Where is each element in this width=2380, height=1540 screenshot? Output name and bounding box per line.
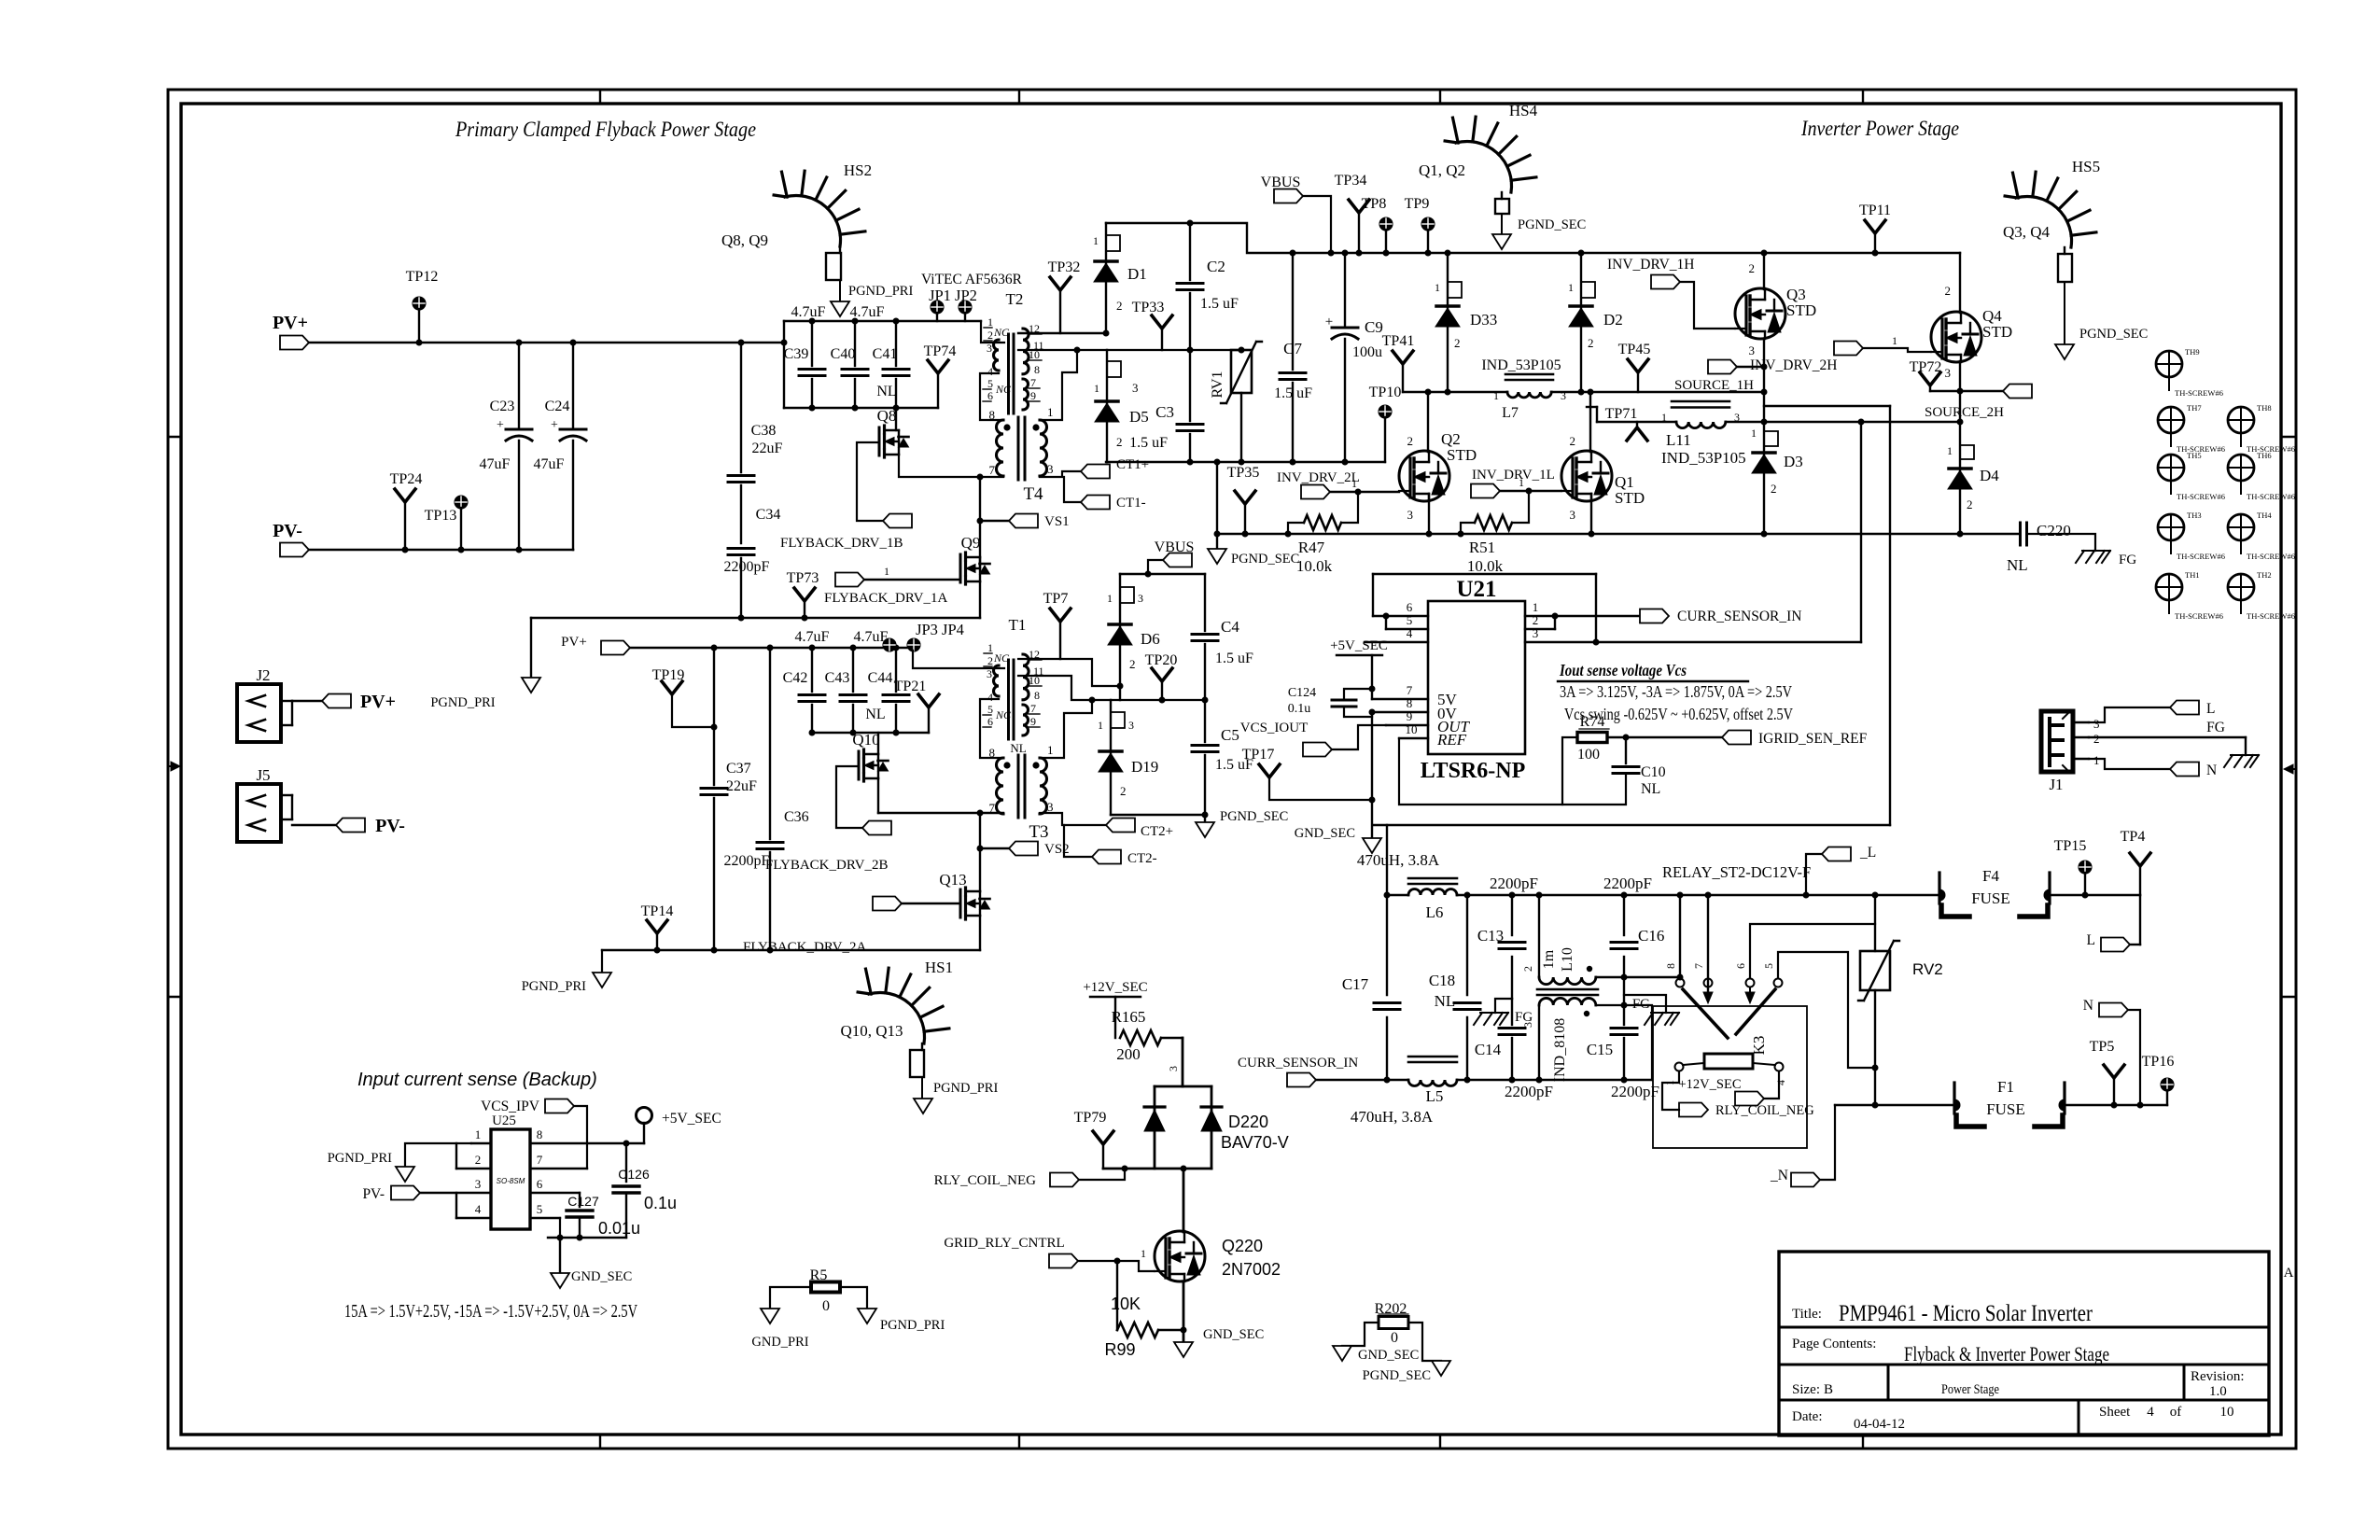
svg-text:Vcs swing -0.625V ~ +0.625V, o: Vcs swing -0.625V ~ +0.625V, offset 2.5V bbox=[1564, 705, 1793, 723]
svg-text:PGND_PRI: PGND_PRI bbox=[522, 979, 586, 994]
junction T4 pin1 rail bbox=[1074, 347, 1081, 354]
svg-text:A: A bbox=[2284, 1266, 2294, 1281]
svg-text:10.0k: 10.0k bbox=[1296, 557, 1333, 575]
junction TP35 bbox=[1242, 531, 1249, 538]
junction VS1 bbox=[977, 518, 984, 525]
svg-text:C13: C13 bbox=[1477, 927, 1504, 945]
svg-text:J5: J5 bbox=[256, 766, 270, 784]
screw TH3 bbox=[2158, 511, 2225, 561]
flag RLY_COIL_NEG relay bbox=[1679, 1103, 1708, 1117]
flag SOURCE_1H bbox=[1674, 360, 1764, 394]
junction C42 bbox=[809, 645, 816, 651]
svg-text:5: 5 bbox=[987, 703, 993, 716]
svg-text:VS2: VS2 bbox=[1044, 842, 1070, 857]
svg-text:C124: C124 bbox=[1288, 686, 1316, 700]
svg-text:CT1+: CT1+ bbox=[1116, 457, 1149, 472]
heatsink HS5 pad bbox=[2058, 254, 2072, 282]
svg-text:4: 4 bbox=[1774, 1080, 1787, 1085]
svg-text:PMP9461 - Micro Solar Inverter: PMP9461 - Micro Solar Inverter bbox=[1839, 1301, 2093, 1326]
wire PGND_PRI rail upper bbox=[531, 617, 980, 619]
screw TH9 bbox=[2156, 347, 2223, 398]
svg-text:REF: REF bbox=[1436, 731, 1467, 749]
svg-text:T4: T4 bbox=[1023, 484, 1043, 504]
junction C23 top bbox=[516, 340, 523, 346]
junction C17 bottom bbox=[1384, 1077, 1391, 1084]
svg-text:PV-: PV- bbox=[273, 521, 302, 541]
junction C44 bbox=[893, 645, 900, 651]
svg-text:3: 3 bbox=[2093, 717, 2100, 731]
svg-text:4: 4 bbox=[987, 691, 993, 704]
svg-text:4: 4 bbox=[2147, 1405, 2154, 1420]
wire Q8 gate to flag bbox=[857, 442, 883, 521]
diode D5 bbox=[1094, 350, 1149, 462]
svg-text:1: 1 bbox=[987, 641, 993, 654]
svg-text:2: 2 bbox=[1533, 613, 1539, 627]
wire T1 block top rail bbox=[1120, 573, 1205, 575]
wire VS2 node vertical bbox=[979, 813, 981, 891]
svg-text:PV-: PV- bbox=[375, 816, 405, 836]
inductor L5 bbox=[1351, 1057, 1457, 1126]
svg-text:FUSE: FUSE bbox=[1971, 889, 2010, 907]
ground PGND_PRI stem upper bbox=[530, 618, 532, 678]
border zone arrow left bbox=[168, 762, 180, 771]
svg-text:4.7uF: 4.7uF bbox=[791, 304, 826, 320]
flag PV- input bbox=[280, 543, 309, 557]
svg-text:+5V_SEC: +5V_SEC bbox=[662, 1111, 721, 1127]
svg-text:TH8: TH8 bbox=[2257, 403, 2272, 413]
testpoint TP41 bbox=[1382, 333, 1415, 392]
diode D3 bbox=[1751, 427, 1803, 496]
diode D33 bbox=[1435, 253, 1497, 392]
svg-text:3: 3 bbox=[1167, 1066, 1180, 1071]
wire source rail bbox=[1217, 533, 2018, 535]
ground PGND_PRI stem lower bbox=[601, 950, 603, 973]
ic U21 pins left bottom bbox=[1372, 683, 1428, 738]
svg-text:2: 2 bbox=[1521, 966, 1534, 972]
svg-text:1m: 1m bbox=[1541, 949, 1557, 969]
wire Q8 source to T4 pin7 bbox=[899, 455, 1003, 477]
testpoint TP16 bbox=[2142, 1054, 2175, 1105]
wire pin1 to flag bbox=[1555, 615, 1640, 617]
resistor R165 bbox=[1112, 1008, 1183, 1086]
ground FG right filter bbox=[1624, 995, 1679, 1025]
svg-text:PGND_SEC: PGND_SEC bbox=[1518, 217, 1586, 232]
flag CT2- bbox=[1092, 850, 1121, 864]
capacitor C23 bbox=[480, 343, 532, 550]
svg-text:C24: C24 bbox=[545, 399, 570, 414]
svg-text:3: 3 bbox=[1521, 1022, 1534, 1028]
svg-text:C18: C18 bbox=[1429, 972, 1455, 989]
wire L10 top left riser bbox=[1538, 895, 1540, 977]
wire C-block bottom rail bbox=[1106, 461, 1385, 463]
wire L10 bottom left riser bbox=[1538, 1005, 1540, 1080]
svg-text:22uF: 22uF bbox=[752, 441, 783, 456]
svg-text:RV2: RV2 bbox=[1912, 960, 1943, 978]
svg-text:NL: NL bbox=[1435, 992, 1456, 1010]
svg-text:7: 7 bbox=[1692, 963, 1705, 969]
svg-text:15A => 1.5V+2.5V, -15A => -1.5: 15A => 1.5V+2.5V, -15A => -1.5V+2.5V, 0A… bbox=[344, 1301, 637, 1322]
svg-text:Flyback & Inverter Power Stage: Flyback & Inverter Power Stage bbox=[1904, 1342, 2109, 1365]
svg-text:GND_SEC: GND_SEC bbox=[1295, 826, 1355, 841]
border zone arrow right bbox=[2284, 764, 2296, 774]
heatsink HS2 pad bbox=[826, 253, 841, 280]
junction RV1 bbox=[1239, 347, 1245, 354]
svg-text:U21: U21 bbox=[1456, 577, 1496, 602]
svg-text:C42: C42 bbox=[783, 670, 808, 686]
svg-text:3: 3 bbox=[1047, 800, 1054, 814]
junction C34 bottom bbox=[738, 615, 745, 622]
svg-text:1: 1 bbox=[884, 565, 889, 578]
svg-text:FG: FG bbox=[1632, 997, 1650, 1012]
svg-text:10: 10 bbox=[1406, 722, 1418, 736]
junction R74 out bbox=[1623, 735, 1630, 741]
title block column lines bbox=[1888, 1365, 2184, 1435]
svg-text:IGRID_SEN_REF: IGRID_SEN_REF bbox=[1758, 731, 1868, 747]
capacitor C220 bbox=[2007, 522, 2071, 574]
resistor R202 bbox=[1342, 1301, 1441, 1361]
svg-text:N: N bbox=[2206, 763, 2217, 778]
svg-text:R5: R5 bbox=[810, 1267, 828, 1283]
ground GND_SEC at Q220 bbox=[1174, 1342, 1193, 1357]
svg-text:F1: F1 bbox=[1997, 1078, 2014, 1096]
svg-text:RLY_COIL_NEG: RLY_COIL_NEG bbox=[934, 1173, 1036, 1188]
junction T4 pin7 bbox=[977, 474, 984, 481]
wire sensor loop top right vertical bbox=[1595, 574, 1597, 642]
junction C2 bbox=[1187, 220, 1194, 227]
svg-text:2: 2 bbox=[1120, 784, 1127, 798]
svg-text:TH6: TH6 bbox=[2257, 451, 2272, 460]
wire PV+ lower rail bbox=[630, 647, 913, 649]
flag INV_DRV_1L bbox=[1471, 468, 1561, 498]
ic U21 pins left top bbox=[1365, 600, 1428, 642]
svg-text:INV_DRV_1L: INV_DRV_1L bbox=[1472, 468, 1555, 483]
testpoint TP72 bbox=[1910, 359, 2003, 391]
capacitor C17 bbox=[1342, 975, 1400, 1010]
svg-text:C126: C126 bbox=[618, 1167, 650, 1182]
svg-text:U25: U25 bbox=[492, 1113, 516, 1128]
junction gnd rail bbox=[557, 1235, 564, 1241]
svg-text:TP11: TP11 bbox=[1859, 203, 1891, 218]
svg-text:1: 1 bbox=[1533, 600, 1539, 614]
svg-text:TP15: TP15 bbox=[2054, 838, 2087, 854]
flag INV_DRV_1H bbox=[1607, 257, 1735, 329]
wire VS1 node vertical bbox=[979, 477, 981, 567]
flag VCS_IPV bbox=[481, 1099, 587, 1169]
resistor R51 bbox=[1461, 491, 1529, 575]
svg-text:HS2: HS2 bbox=[844, 161, 872, 179]
flag _L bbox=[1806, 845, 1876, 895]
wire Q3 drain bbox=[1763, 253, 1765, 289]
svg-text:TH7: TH7 bbox=[2187, 403, 2202, 413]
testpoint TP4 bbox=[2121, 829, 2150, 895]
flag PV- at J5 bbox=[336, 819, 365, 833]
svg-text:3: 3 bbox=[1407, 508, 1414, 522]
svg-text:TP4: TP4 bbox=[2121, 829, 2146, 845]
junction C36 bbox=[767, 645, 774, 651]
testpoint TP73 bbox=[787, 570, 819, 618]
heatsink HS1 pad bbox=[910, 1050, 924, 1077]
wire REF rail bbox=[1399, 738, 1626, 805]
wire C220 to FG bbox=[2027, 534, 2095, 551]
svg-text:0: 0 bbox=[1391, 1330, 1398, 1346]
ground GND_SEC at R202 bbox=[1333, 1346, 1351, 1361]
svg-text:3: 3 bbox=[1945, 366, 1952, 380]
svg-text:PGND_PRI: PGND_PRI bbox=[933, 1081, 998, 1096]
capacitor C36 bbox=[724, 648, 809, 950]
svg-text:1: 1 bbox=[1351, 477, 1357, 490]
varistor RV1 bbox=[1210, 342, 1262, 462]
svg-text:TP10: TP10 bbox=[1369, 385, 1402, 400]
testpoint TP8 bbox=[1362, 196, 1393, 253]
junction Q3 phase bbox=[1761, 389, 1768, 396]
diode D2 bbox=[1568, 253, 1623, 392]
ic U21 pin names bbox=[1436, 691, 1471, 749]
svg-text:8: 8 bbox=[989, 408, 996, 422]
svg-text:C23: C23 bbox=[490, 399, 515, 414]
screw TH4 bbox=[2228, 511, 2295, 561]
mosfet Q13 bbox=[939, 871, 989, 919]
svg-text:PGND_PRI: PGND_PRI bbox=[880, 1318, 945, 1333]
wire Q13 source down bbox=[979, 916, 981, 950]
svg-text:TP8: TP8 bbox=[1362, 196, 1387, 212]
svg-text:1: 1 bbox=[1519, 476, 1524, 489]
junction bank left PV+ bbox=[781, 340, 788, 346]
svg-text:C36: C36 bbox=[784, 809, 809, 825]
diode D1 bbox=[1093, 223, 1147, 333]
testpoint TP11 bbox=[1859, 203, 1891, 253]
ic U25 box bbox=[491, 1129, 530, 1229]
capacitor C13 bbox=[1477, 895, 1525, 999]
svg-text:CT2-: CT2- bbox=[1127, 851, 1157, 866]
connector J2 bbox=[237, 666, 322, 742]
wire Q10 source to T3 pin7 bbox=[877, 778, 879, 813]
svg-text:+5V_SEC: +5V_SEC bbox=[1330, 638, 1388, 653]
junction TP13 bbox=[458, 547, 465, 553]
wire L rail bbox=[1387, 894, 1408, 896]
svg-text:C38: C38 bbox=[751, 423, 777, 439]
svg-text:_L: _L bbox=[1859, 845, 1876, 861]
heatsink HS4 pad bbox=[1495, 199, 1509, 214]
svg-text:TP74: TP74 bbox=[924, 343, 957, 359]
svg-text:TP73: TP73 bbox=[787, 570, 819, 586]
flag CT2+ bbox=[1106, 819, 1135, 833]
svg-text:3: 3 bbox=[1749, 343, 1756, 357]
junction TP9 bbox=[1425, 250, 1432, 257]
flag PV+ input bbox=[280, 336, 309, 350]
svg-text:Q220: Q220 bbox=[1222, 1237, 1263, 1255]
wire T1 pin11 to D6 bbox=[1018, 659, 1120, 686]
svg-text:J2: J2 bbox=[256, 666, 270, 684]
junction D220 bottom bbox=[1122, 1166, 1128, 1172]
svg-text:D6: D6 bbox=[1141, 630, 1160, 648]
svg-text:0.1u: 0.1u bbox=[1288, 702, 1311, 716]
svg-text:C4: C4 bbox=[1221, 618, 1239, 636]
testpoint TP21 bbox=[894, 679, 939, 733]
svg-text:2: 2 bbox=[1967, 497, 1973, 511]
svg-text:J1: J1 bbox=[2049, 776, 2063, 793]
wire VBUS top rail bbox=[1106, 223, 1960, 253]
svg-text:Size:: Size: bbox=[1792, 1382, 1820, 1397]
wire U25 gnd rail bbox=[548, 1237, 626, 1239]
svg-text:C16: C16 bbox=[1638, 927, 1664, 945]
ic U25 pins left bbox=[405, 1127, 491, 1218]
wire U25 pin5 down bbox=[559, 1218, 561, 1238]
svg-text:4: 4 bbox=[1407, 626, 1413, 640]
svg-text:5: 5 bbox=[1407, 613, 1413, 627]
svg-text:BAV70-V: BAV70-V bbox=[1221, 1133, 1289, 1152]
junction Q2 drain bbox=[1425, 389, 1432, 396]
junction TP8 bbox=[1383, 250, 1390, 257]
wire JP4 to T1 pin3 bbox=[913, 651, 1004, 668]
svg-text:Q1, Q2: Q1, Q2 bbox=[1419, 161, 1465, 179]
power +5V_SEC tap bbox=[1330, 638, 1388, 699]
junction D1 anode bbox=[1103, 330, 1110, 337]
testpoint TP20 bbox=[1145, 652, 1178, 700]
svg-text:6: 6 bbox=[987, 715, 993, 728]
svg-text:3: 3 bbox=[1570, 508, 1576, 522]
svg-text:Input current sense (Backup): Input current sense (Backup) bbox=[357, 1070, 597, 1090]
ground PGND_SEC at C5 bbox=[1204, 815, 1206, 822]
svg-text:+12V_SEC: +12V_SEC bbox=[1083, 980, 1147, 995]
ground FG at C220 bbox=[2082, 550, 2110, 552]
svg-text:1.5 uF: 1.5 uF bbox=[1200, 296, 1239, 312]
junction C16 bbox=[1621, 892, 1628, 899]
svg-text:10K: 10K bbox=[1111, 1295, 1141, 1313]
svg-text:FLYBACK_DRV_2B: FLYBACK_DRV_2B bbox=[765, 858, 888, 873]
svg-text:TP20: TP20 bbox=[1145, 652, 1178, 668]
svg-text:0: 0 bbox=[822, 1298, 830, 1314]
screw TH7 bbox=[2158, 403, 2225, 454]
wire D19 bottom rail bbox=[1111, 814, 1205, 816]
svg-text:C5: C5 bbox=[1221, 726, 1239, 744]
svg-text:5: 5 bbox=[987, 377, 993, 390]
flag FLYBACK_DRV_2A bbox=[873, 897, 902, 911]
connector J5 bbox=[237, 766, 336, 842]
svg-text:VS1: VS1 bbox=[1044, 514, 1070, 529]
svg-text:STD: STD bbox=[1447, 446, 1477, 464]
junction RV2 top bbox=[1872, 892, 1879, 899]
capacitor C124 bbox=[1288, 686, 1372, 717]
svg-text:C220: C220 bbox=[2037, 522, 2071, 539]
transformer T2 bbox=[983, 290, 1044, 413]
border inner frame bbox=[181, 104, 2281, 1435]
junction L10 top bbox=[1536, 892, 1543, 899]
svg-text:GRID_RLY_CNTRL: GRID_RLY_CNTRL bbox=[944, 1236, 1064, 1251]
svg-text:SOURCE_2H: SOURCE_2H bbox=[1925, 405, 2004, 420]
testpoint TP5 bbox=[2090, 1039, 2124, 1105]
svg-text:8: 8 bbox=[1664, 963, 1677, 969]
svg-text:PGND_SEC: PGND_SEC bbox=[1231, 552, 1299, 567]
svg-text:RV1: RV1 bbox=[1210, 371, 1225, 399]
wire T2 pin4 to T4 pin8 bbox=[980, 373, 1003, 420]
svg-text:4: 4 bbox=[987, 365, 993, 378]
svg-text:2: 2 bbox=[1129, 657, 1136, 671]
heatsink HS4 bbox=[1419, 102, 1538, 192]
mosfet Q220 bbox=[1155, 1231, 1281, 1281]
svg-text:TH-SCREW#6: TH-SCREW#6 bbox=[2247, 492, 2295, 501]
junction TP24 bbox=[402, 547, 409, 553]
svg-text:PGND_PRI: PGND_PRI bbox=[430, 695, 495, 710]
junction C18 bbox=[1464, 892, 1471, 899]
svg-text:K3: K3 bbox=[1750, 1036, 1768, 1056]
junction D33 top bbox=[1445, 250, 1451, 257]
svg-text:2200pF: 2200pF bbox=[724, 853, 770, 869]
svg-text:2: 2 bbox=[987, 654, 993, 667]
svg-text:6: 6 bbox=[1407, 600, 1413, 614]
svg-text:TP72: TP72 bbox=[1910, 359, 1942, 375]
relay K3 pin 8 bbox=[1664, 895, 1685, 987]
diode D220 pair bbox=[1103, 1086, 1289, 1169]
flag VS2 bbox=[1009, 842, 1038, 856]
flag FLYBACK_DRV_2B bbox=[862, 821, 891, 835]
svg-text:TH-SCREW#6: TH-SCREW#6 bbox=[2247, 552, 2295, 561]
diode D19 bbox=[1098, 700, 1158, 815]
svg-text:C17: C17 bbox=[1342, 975, 1369, 993]
junction 5V pin bbox=[1369, 686, 1376, 693]
capacitor C18 bbox=[1429, 895, 1480, 1080]
junction 0V bbox=[1369, 709, 1376, 716]
wire T4 pin1 up to rail bbox=[1040, 350, 1077, 420]
svg-text:C40: C40 bbox=[831, 346, 856, 362]
testpoint TP34 bbox=[1335, 173, 1369, 253]
junction D5 bottom corner bbox=[1214, 459, 1221, 466]
wire C39 bank bottom rail bbox=[784, 407, 938, 409]
junction TP11 bbox=[1872, 250, 1879, 257]
capacitor C43 bbox=[825, 648, 866, 733]
svg-text:2: 2 bbox=[1116, 299, 1123, 313]
svg-text:C10: C10 bbox=[1641, 764, 1666, 780]
svg-text:B: B bbox=[1824, 1382, 1833, 1397]
svg-text:TP35: TP35 bbox=[1227, 465, 1260, 481]
testpoint TP19 bbox=[652, 667, 714, 727]
svg-text:IND_53P105: IND_53P105 bbox=[1661, 449, 1746, 467]
heatsink HS2 bbox=[721, 161, 872, 249]
svg-text:2: 2 bbox=[1454, 336, 1461, 350]
svg-text:FLYBACK_DRV_1B: FLYBACK_DRV_1B bbox=[780, 536, 903, 551]
wire Q4 drain bbox=[1959, 253, 1961, 313]
flag CT1+ bbox=[1081, 465, 1110, 479]
svg-text:+: + bbox=[551, 418, 558, 432]
jumper JP3 bbox=[883, 638, 896, 651]
svg-text:Date:: Date: bbox=[1792, 1409, 1822, 1424]
capacitor C34 bbox=[724, 485, 781, 618]
svg-text:10.0k: 10.0k bbox=[1467, 557, 1504, 575]
svg-text:NL: NL bbox=[865, 707, 885, 722]
mosfet Q4 bbox=[1931, 284, 2012, 380]
capacitor C9 polarized bbox=[1325, 253, 1383, 462]
diode D6 bbox=[1107, 574, 1160, 700]
svg-text:Power Stage: Power Stage bbox=[1941, 1382, 1999, 1397]
ground PGND_PRI at HS1 bbox=[914, 1099, 932, 1113]
mosfet Q10 bbox=[852, 731, 888, 781]
wire Q1 source bbox=[1590, 494, 1592, 534]
svg-text:Q3, Q4: Q3, Q4 bbox=[2003, 223, 2051, 241]
junction TP5 bbox=[2111, 1102, 2118, 1109]
svg-text:1: 1 bbox=[1892, 334, 1897, 347]
resistor R74 bbox=[1562, 714, 1626, 805]
svg-text:6: 6 bbox=[537, 1177, 543, 1191]
svg-text:TH3: TH3 bbox=[2187, 511, 2202, 520]
svg-text:FLYBACK_DRV_1A: FLYBACK_DRV_1A bbox=[824, 591, 947, 606]
junction C126 top bbox=[623, 1141, 630, 1147]
flag N upper right bbox=[2083, 998, 2140, 1105]
svg-text:3: 3 bbox=[1533, 626, 1539, 640]
diode D4 bbox=[1947, 444, 1999, 511]
resistor R47 bbox=[1288, 492, 1358, 575]
junction T3 pin1 rail bbox=[1089, 697, 1096, 704]
ground PGND_SEC at R202 bbox=[1432, 1361, 1450, 1376]
svg-text:Q8, Q9: Q8, Q9 bbox=[721, 231, 768, 249]
